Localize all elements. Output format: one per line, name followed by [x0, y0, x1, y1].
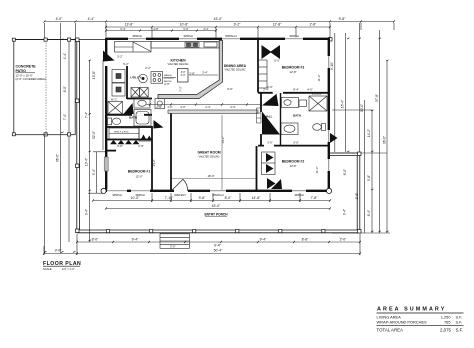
dimension lines top: [45, 22, 395, 41]
svg-text:1/4" = 1'-0": 1/4" = 1'-0": [62, 267, 75, 271]
NW door wedge: [103, 51, 115, 62]
svg-text:13'-4": 13'-4": [85, 158, 89, 166]
svg-text:RANGE: RANGE: [164, 74, 172, 77]
svg-text:11'-4": 11'-4": [315, 167, 319, 174]
kitchen island: [178, 69, 189, 83]
range: [151, 72, 163, 84]
svg-text:GREAT ROOM: GREAT ROOM: [197, 151, 220, 155]
svg-text:9'-4": 9'-4": [92, 169, 96, 175]
svg-text:VAULTED CEILING: VAULTED CEILING: [199, 156, 220, 159]
dimension lines left: [45, 23, 107, 254]
interior dims: [117, 55, 321, 179]
svg-text:11'-4": 11'-4": [317, 75, 321, 82]
svg-text:4'-0": 4'-0": [307, 88, 313, 92]
svg-text:3'-4": 3'-4": [203, 27, 208, 31]
svg-text:BEDROOM #1: BEDROOM #1: [128, 170, 151, 174]
svg-text:14'-8": 14'-8": [252, 196, 261, 200]
svg-text:4'-0": 4'-0": [56, 17, 64, 21]
svg-text:2'-6": 2'-6": [263, 116, 268, 119]
svg-text:9'-2": 9'-2": [234, 23, 242, 27]
wic left: [108, 102, 123, 115]
svg-text:S.F.: S.F.: [456, 328, 464, 333]
great room half wall: [168, 110, 258, 113]
east porch door wedge: [330, 133, 338, 143]
svg-text:43'-0": 43'-0": [212, 204, 221, 208]
dimension labels left (rotated): [56, 53, 97, 215]
svg-text:7'-10": 7'-10": [165, 196, 174, 200]
interior walls: [106, 38, 328, 191]
svg-text:9'-4": 9'-4": [85, 209, 89, 215]
area summary: [377, 307, 464, 333]
svg-text:KITCHEN: KITCHEN: [170, 59, 186, 63]
svg-text:3068 ENT: 3068 ENT: [174, 193, 186, 197]
svg-text:5'-0": 5'-0": [274, 59, 280, 63]
svg-text:3050SH: 3050SH: [112, 193, 122, 197]
dimension lines right: [332, 23, 390, 233]
svg-text:15'-8": 15'-8": [92, 71, 96, 79]
svg-text:2,075: 2,075: [440, 328, 452, 333]
dimension labels top: [56, 17, 347, 31]
svg-text:9'-6": 9'-6": [227, 87, 233, 91]
svg-text:3050SH-2: 3050SH-2: [212, 193, 224, 197]
room label HALL: [265, 115, 273, 119]
svg-text:4'-4": 4'-4": [63, 53, 67, 59]
dimension labels right (rotated): [330, 62, 387, 216]
svg-text:2'-8": 2'-8": [310, 23, 318, 27]
svg-text:PATIO: PATIO: [16, 69, 27, 73]
extra small dims right wing: [123, 59, 313, 145]
concrete patio: [14, 40, 75, 135]
svg-text:37'-8": 37'-8": [375, 94, 379, 102]
svg-text:2'-4": 2'-4": [156, 105, 161, 109]
utility appliances: [112, 70, 148, 98]
svg-text:5'-0": 5'-0": [183, 27, 188, 31]
room label BATH (west): [129, 116, 137, 120]
svg-text:9'-8": 9'-8": [367, 175, 371, 181]
svg-text:5'-2": 5'-2": [123, 62, 129, 66]
hall door wedge west: [154, 120, 164, 129]
svg-text:7'-4": 7'-4": [85, 112, 89, 118]
kitchen dim ticks/labels: [149, 103, 262, 105]
bedroom2 closet: [262, 152, 276, 175]
svg-text:BATH: BATH: [129, 116, 137, 120]
svg-text:50'-4": 50'-4": [214, 249, 223, 253]
svg-text:9'-0": 9'-0": [180, 105, 185, 109]
svg-text:3'-0": 3'-0": [267, 141, 273, 145]
dimension lines bottom: [44, 193, 360, 255]
dimension labels bottom: [55, 196, 348, 253]
svg-text:3'-0": 3'-0": [170, 244, 176, 248]
hall door wedges right: [262, 94, 279, 106]
kitchen counters: [115, 42, 220, 53]
svg-text:8'-0": 8'-0": [63, 86, 67, 92]
svg-text:32'-0": 32'-0": [92, 131, 96, 139]
svg-text:2'-0": 2'-0": [168, 106, 173, 109]
kitchen dim line: [146, 75, 262, 105]
svg-text:4'-8": 4'-8": [153, 27, 158, 31]
water heater: [139, 74, 148, 83]
svg-text:3050SH: 3050SH: [135, 193, 145, 197]
svg-text:8'-4": 8'-4": [367, 210, 371, 216]
svg-text:8'-4": 8'-4": [293, 88, 299, 92]
svg-text:S.F.: S.F.: [456, 319, 463, 324]
steps south: [160, 234, 190, 249]
svg-text:7'-8": 7'-8": [311, 196, 319, 200]
svg-text:2'-4": 2'-4": [205, 105, 210, 109]
svg-text:7'-4": 7'-4": [63, 114, 67, 120]
svg-text:4'-0"x5'-0": 4'-0"x5'-0": [312, 94, 322, 96]
svg-text:SCALE:: SCALE:: [43, 267, 53, 271]
south wall window tags: [112, 193, 304, 197]
room label GREAT ROOM: [197, 151, 220, 159]
corner columns: [101, 188, 106, 193]
svg-text:ENTRY PORCH: ENTRY PORCH: [204, 213, 228, 217]
svg-text:18'-0": 18'-0": [207, 174, 214, 178]
svg-text:2'-8": 2'-8": [138, 144, 144, 148]
room label BEDROOM #1: [128, 170, 151, 174]
entry porch label: [204, 213, 228, 217]
svg-text:3050SH: 3050SH: [294, 193, 304, 197]
svg-text:5'-4": 5'-4": [120, 27, 125, 31]
svg-text:14'-2": 14'-2": [221, 136, 225, 143]
svg-text:10'-8": 10'-8": [180, 23, 189, 27]
kitchen bar / peninsula: [158, 41, 223, 99]
svg-text:36'-0": 36'-0": [383, 136, 387, 144]
wic door wedge: [124, 103, 134, 114]
svg-text:9'-4": 9'-4": [260, 238, 268, 242]
hall shelves: [257, 108, 262, 123]
svg-text:BEDROOM #2: BEDROOM #2: [282, 160, 305, 164]
svg-text:VAULTED CEILING: VAULTED CEILING: [168, 63, 189, 66]
bedroom3 closet: [258, 60, 267, 88]
svg-text:12'-0": 12'-0": [135, 175, 142, 179]
porch posts: [12, 38, 361, 234]
svg-text:14'-2": 14'-2": [152, 159, 156, 166]
svg-text:8'-8": 8'-8": [302, 238, 310, 242]
svg-text:W.I.C.: W.I.C.: [111, 99, 118, 102]
svg-text:12'-8": 12'-8": [273, 23, 282, 27]
svg-text:8'-0": 8'-0": [92, 238, 100, 242]
svg-text:9'-4": 9'-4": [230, 105, 235, 109]
box with circle (hall): [155, 99, 165, 109]
svg-text:8'-0": 8'-0": [225, 196, 233, 200]
svg-text:30'-0": 30'-0": [360, 104, 364, 112]
svg-text:2'-0": 2'-0": [340, 238, 348, 242]
interior door openings (white): [132, 93, 283, 146]
svg-text:UTILITY: UTILITY: [130, 76, 141, 80]
svg-text:13'-8": 13'-8": [289, 164, 296, 168]
window thin lines: [107, 39, 329, 191]
svg-text:9'-4": 9'-4": [214, 244, 222, 248]
room label DINING AREA: [224, 64, 247, 72]
svg-text:2'-2": 2'-2": [145, 66, 151, 70]
svg-text:15'-4": 15'-4": [341, 100, 345, 108]
svg-text:9'-10": 9'-10": [330, 62, 334, 70]
svg-text:9'-8": 9'-8": [339, 17, 347, 21]
svg-text:BATH: BATH: [293, 114, 301, 118]
room label BEDROOM #3: [282, 66, 305, 70]
svg-text:14'-2": 14'-2": [367, 129, 371, 137]
svg-text:36'-0": 36'-0": [56, 154, 60, 162]
room label UTILITY: [130, 76, 141, 80]
great room east doors: [262, 112, 280, 135]
svg-text:9'-4": 9'-4": [343, 209, 347, 215]
svg-text:9'-8": 9'-8": [199, 196, 207, 200]
window tags north wall: [132, 34, 299, 38]
west wall window hatch: [104, 157, 108, 171]
svg-text:8'-0": 8'-0": [343, 169, 347, 175]
room label BATH (east): [293, 114, 301, 118]
svg-text:WRAP-AROUND PORCHES: WRAP-AROUND PORCHES: [377, 319, 428, 324]
svg-text:765: 765: [444, 319, 451, 324]
entry door swing: [171, 179, 187, 191]
bath left fixtures: [108, 99, 152, 127]
svg-text:TOTAL AREA: TOTAL AREA: [377, 328, 404, 333]
bedroom1 closet: [109, 128, 152, 142]
bath right wall: [280, 93, 282, 146]
svg-text:(2'-0" COVERED AREA): (2'-0" COVERED AREA): [16, 77, 46, 81]
bath right fixtures: [281, 96, 327, 135]
svg-text:5'-2": 5'-2": [117, 55, 123, 59]
floor plan title: [43, 261, 81, 271]
svg-text:SHELF & ROD: SHELF & ROD: [114, 132, 129, 134]
svg-text:AREA SUMMARY: AREA SUMMARY: [377, 307, 446, 313]
room label BEDROOM #2: [282, 160, 305, 164]
svg-text:3'-0": 3'-0": [55, 249, 63, 253]
svg-text:3'-4": 3'-4": [202, 71, 208, 75]
svg-text:43'-0": 43'-0": [214, 17, 223, 21]
svg-text:2'-4": 2'-4": [263, 88, 269, 92]
house exterior walls: [104, 38, 330, 191]
svg-text:9'-8": 9'-8": [117, 144, 123, 148]
svg-text:VAULTED CEILING: VAULTED CEILING: [225, 69, 246, 72]
room label KITCHEN: [168, 59, 189, 67]
svg-text:4'-4": 4'-4": [88, 17, 96, 21]
porch outline: [14, 39, 360, 233]
svg-text:5'-0": 5'-0": [293, 141, 299, 145]
svg-text:DINING AREA: DINING AREA: [224, 64, 247, 68]
svg-text:12'-8": 12'-8": [289, 70, 296, 74]
svg-text:4'-0": 4'-0": [181, 74, 186, 77]
tick slashes on dimension lines: [43, 20, 395, 254]
svg-text:7'-2": 7'-2": [179, 86, 183, 92]
svg-text:W/ HOOD: W/ HOOD: [164, 78, 174, 80]
svg-text:9'-4": 9'-4": [132, 238, 140, 242]
svg-text:2'-6": 2'-6": [164, 82, 170, 86]
window gaps in exterior walls: [106, 39, 329, 191]
svg-text:BEDROOM #3: BEDROOM #3: [282, 66, 305, 70]
svg-text:13'-8": 13'-8": [125, 23, 134, 27]
